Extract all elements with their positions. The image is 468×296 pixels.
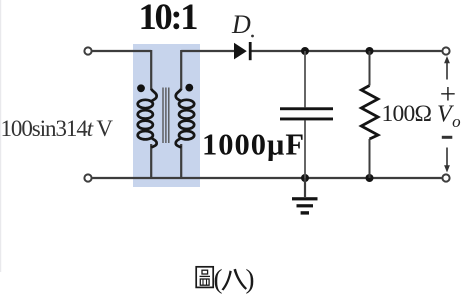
wire: primary bottom vertical [150,144,152,178]
svg-text:1000μF: 1000μF [202,127,304,161]
label minus sign [442,136,453,139]
wire: secondary top vertical [180,50,182,90]
diode D [234,43,247,60]
wire: secondary bottom vertical [180,144,182,178]
svg-text:Vo: Vo [437,102,461,132]
wire: resistor bottom lead [369,139,371,178]
svg-text:100Ω: 100Ω [382,101,433,127]
phase dot secondary [185,84,193,92]
node: resistor bottom junction [366,174,374,182]
wire: top-left horizontal from source + terminal to primary [92,50,151,52]
terminal: source bottom [84,174,91,181]
terminal: source top [84,47,91,54]
ground bars [292,197,318,200]
output down arrow [446,148,448,168]
caption glyph tu (figure) [196,267,213,288]
node: capacitor-ground junction [301,174,309,182]
output up arrow [446,60,448,80]
terminal: output bottom [442,174,449,181]
node: diode-capacitor junction [301,47,309,55]
transformer shading box [133,44,200,187]
wire: primary top vertical [150,50,152,90]
node: resistor top junction [366,47,374,55]
wire: resistor top lead [369,51,371,86]
transformer T1 secondary winding [176,89,194,148]
wire: capacitor top lead [304,51,306,107]
svg-text:D: D [231,10,251,39]
transformer T1 primary winding [138,89,157,148]
terminal: output top [442,47,449,54]
wire: bottom horizontal [92,177,441,179]
svg-text:10:1: 10:1 [139,0,199,37]
scan artifact left edge [0,0,1,272]
ground stem [304,178,306,197]
caption glyph ba (eight) [222,269,248,291]
wire: top horizontal diode to output terminal [251,50,442,52]
transformer core [163,88,169,144]
wire: capacitor bottom lead [304,120,306,178]
svg-text:): ) [246,264,255,294]
wire: top horizontal from secondary to diode [181,50,234,52]
resistor R1 zigzag [361,86,378,140]
svg-text:100sin314t V: 100sin314t V [1,116,114,141]
capacitor C1 plates [280,107,333,110]
diode label dot [251,35,254,38]
phase dot primary [137,84,145,92]
svg-text:(: ( [214,264,223,294]
